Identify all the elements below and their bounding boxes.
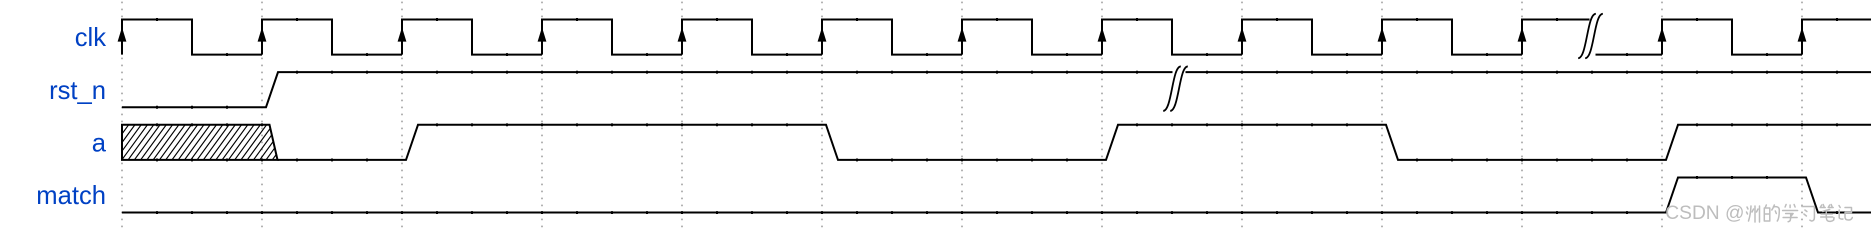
svg-text:a: a — [92, 129, 107, 157]
svg-text:clk: clk — [75, 24, 106, 52]
svg-text:CSDN @: CSDN @ — [1665, 203, 1744, 224]
svg-text:rst_n: rst_n — [49, 77, 106, 105]
svg-text:match: match — [36, 182, 106, 210]
